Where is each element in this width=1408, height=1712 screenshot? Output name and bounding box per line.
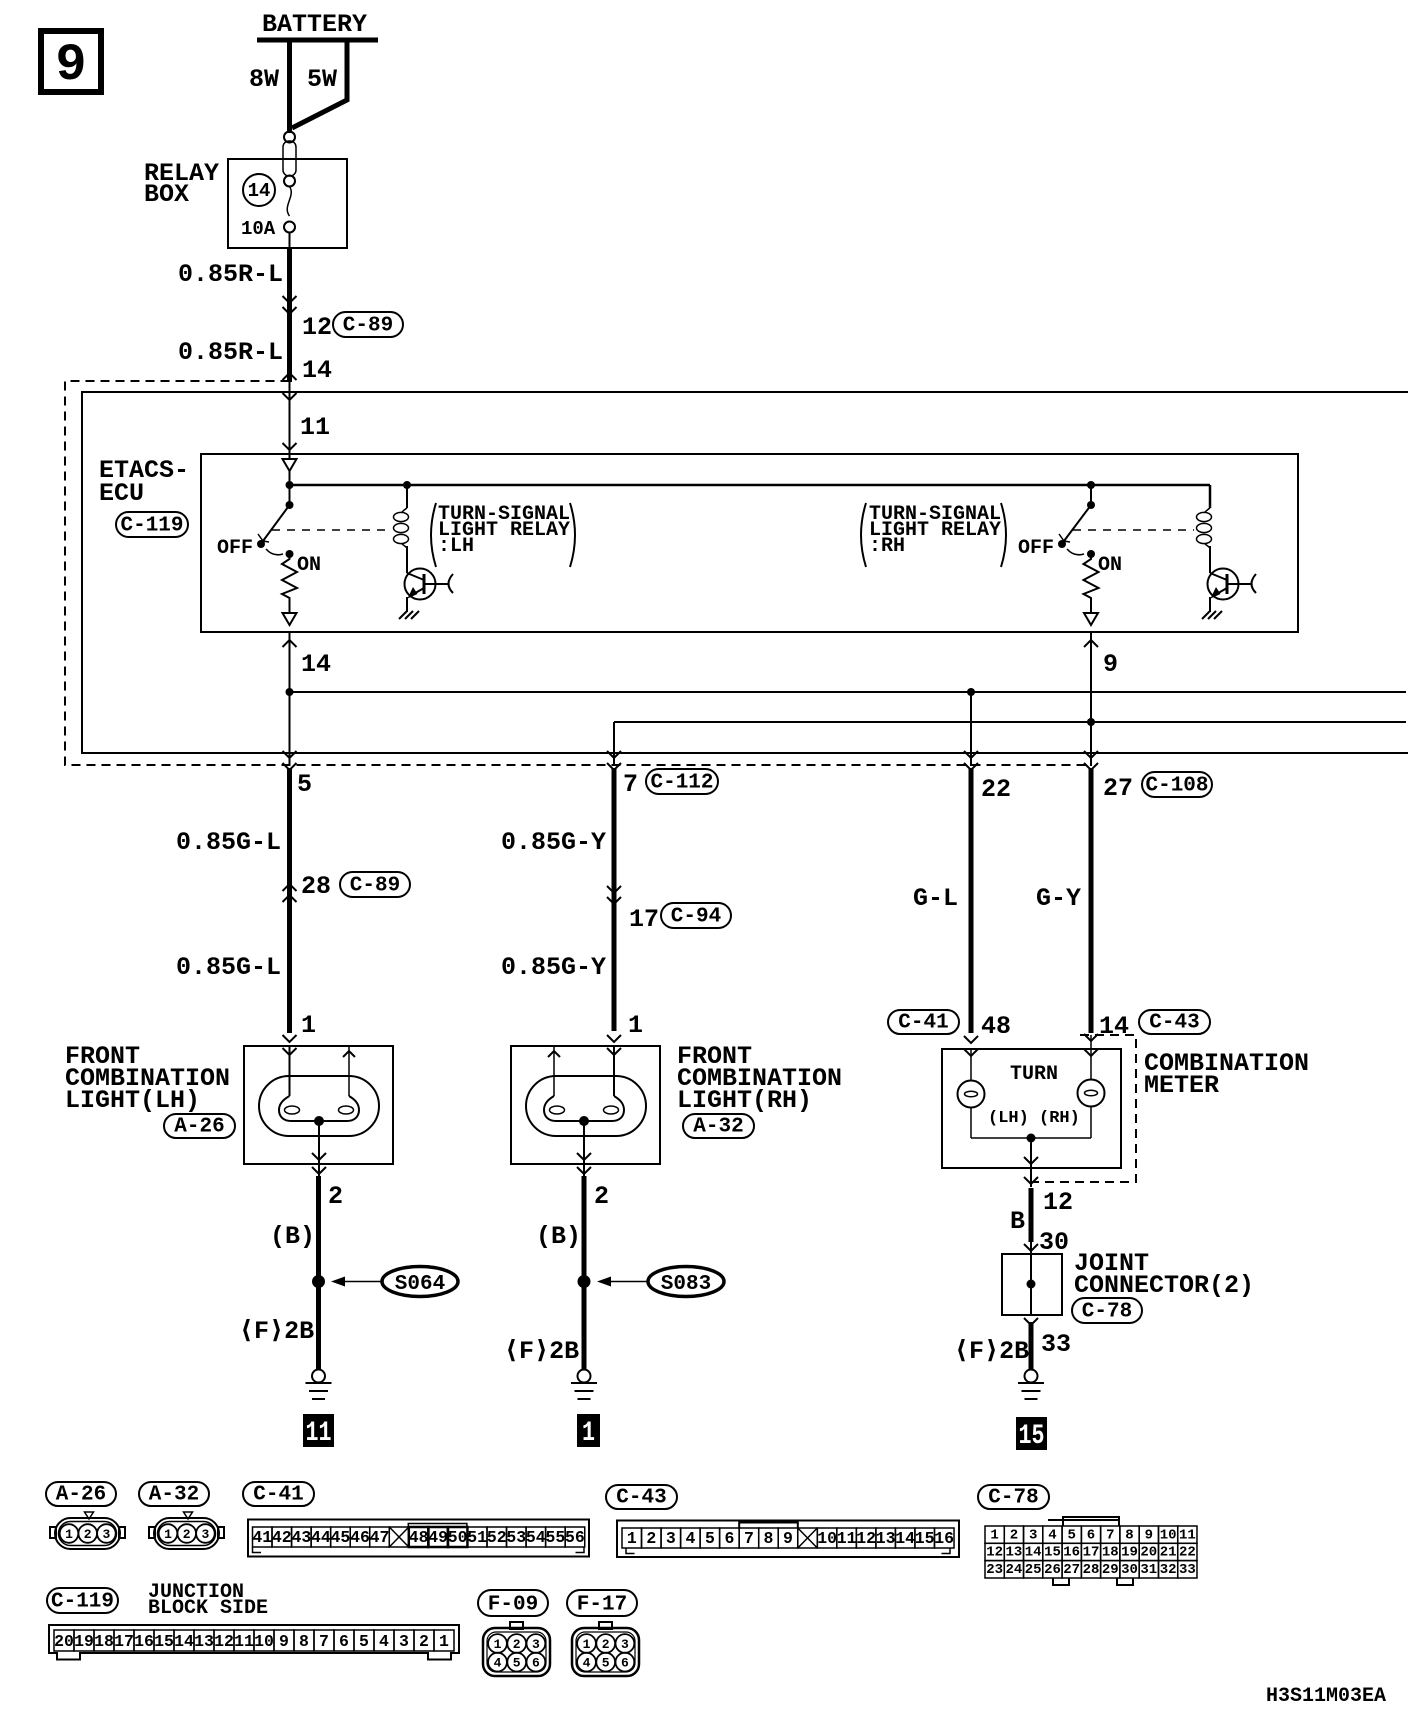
arrows into LH light connector <box>283 1035 297 1055</box>
svg-text:16: 16 <box>934 1529 954 1548</box>
svg-text:6: 6 <box>532 1656 540 1671</box>
arrow into joint connector <box>1030 1242 1032 1254</box>
wire to pin 7 with crossing arrows <box>607 722 621 770</box>
svg-text:9: 9 <box>783 1529 793 1548</box>
svg-text:14: 14 <box>1099 1012 1129 1041</box>
RH bulb feed wire pin1 <box>613 1046 615 1096</box>
svg-text:14: 14 <box>174 1632 194 1651</box>
svg-text:12: 12 <box>1043 1188 1073 1217</box>
svg-text:BLOCK SIDE: BLOCK SIDE <box>148 1597 268 1620</box>
LH ON contact <box>286 550 294 558</box>
relay box outline <box>228 159 347 248</box>
svg-text:25: 25 <box>1025 1562 1042 1578</box>
svg-text:50: 50 <box>448 1528 468 1547</box>
node: rail at LH relay coil <box>403 481 411 489</box>
svg-text:4: 4 <box>583 1656 591 1671</box>
svg-text:53: 53 <box>506 1528 526 1547</box>
connector capsule C-108 <box>1142 772 1212 798</box>
svg-text:17: 17 <box>1083 1545 1100 1561</box>
ground wire meter <box>1029 1322 1034 1370</box>
svg-text:2: 2 <box>183 1527 191 1542</box>
svg-text:28: 28 <box>1083 1562 1100 1578</box>
connector C-41 pinout <box>248 1520 589 1557</box>
RH bulb filaments <box>544 1096 624 1121</box>
svg-text:20: 20 <box>54 1632 74 1651</box>
internal supply rail wire <box>290 484 1211 487</box>
svg-text:3: 3 <box>621 1637 629 1652</box>
arrow out of joint connector <box>1024 1318 1038 1325</box>
svg-text:9: 9 <box>1103 650 1118 679</box>
svg-text:30: 30 <box>1121 1562 1138 1578</box>
RH relay coil <box>1197 485 1212 570</box>
joint connector node <box>1027 1280 1036 1289</box>
RH bulb outline <box>526 1076 646 1136</box>
svg-text:BOX: BOX <box>144 180 189 209</box>
arrow out of ETACS pin 9 <box>1084 640 1098 647</box>
svg-text:CONNECTOR(2): CONNECTOR(2) <box>1074 1271 1254 1300</box>
svg-text:9: 9 <box>1145 1527 1153 1543</box>
node LH branch <box>286 688 294 696</box>
svg-text:A-32: A-32 <box>693 1116 743 1139</box>
LH transistor ground <box>399 611 419 619</box>
svg-text:11: 11 <box>1179 1527 1196 1543</box>
fuse number circle 14 <box>243 174 275 206</box>
pass-through arrows at C-89 pin 28 <box>283 884 297 902</box>
arrow into ETACS-ECU <box>283 443 297 450</box>
wire ETACS pin9 down to node <box>1090 632 1092 722</box>
RH light output wire pin 2 <box>577 1121 591 1176</box>
svg-text:8: 8 <box>764 1529 774 1548</box>
fuse 14 (10A) in relay box <box>283 132 296 233</box>
wire G-L pin22 to meter <box>969 768 974 1033</box>
svg-text:C-89: C-89 <box>350 875 400 898</box>
svg-text:1: 1 <box>439 1632 449 1651</box>
ground wire (B) LH <box>316 1176 321 1370</box>
svg-text:31: 31 <box>1140 1562 1157 1578</box>
svg-text:1: 1 <box>627 1529 637 1548</box>
svg-text:1: 1 <box>65 1527 73 1542</box>
svg-text:44: 44 <box>311 1528 331 1547</box>
arrow into junction block <box>283 373 297 380</box>
resistor in LH switch leg <box>282 554 297 612</box>
svg-text:F-17: F-17 <box>577 1594 627 1617</box>
svg-text:8: 8 <box>1125 1527 1133 1543</box>
svg-text:LIGHT(LH): LIGHT(LH) <box>65 1086 200 1115</box>
svg-text:33: 33 <box>1041 1330 1071 1359</box>
svg-text:2: 2 <box>1010 1527 1018 1543</box>
battery positive bar <box>257 38 378 43</box>
svg-text:26: 26 <box>1044 1562 1061 1578</box>
svg-text:C-78: C-78 <box>1082 1301 1132 1324</box>
connector capsule C-43 <box>1139 1010 1210 1035</box>
arrow out of ETACS pin 14 <box>283 640 297 647</box>
svg-text:5: 5 <box>513 1656 521 1671</box>
connector pass-through arrows at C-89 <box>283 296 297 314</box>
svg-text:11: 11 <box>300 413 330 442</box>
svg-text:(B): (B) <box>270 1222 315 1251</box>
wire G-Y pin27 to meter <box>1089 768 1094 1033</box>
svg-text:G-Y: G-Y <box>1036 884 1081 913</box>
wire 0.85G-L pin5 to light <box>287 768 292 1033</box>
svg-text:14: 14 <box>301 650 331 679</box>
svg-text:12: 12 <box>856 1529 876 1548</box>
pass-through arrows at C-94 pin 17 <box>607 886 621 904</box>
svg-text:3: 3 <box>666 1529 676 1548</box>
ground symbol RH <box>571 1370 597 1400</box>
RH arm travel arc to ON <box>1067 549 1084 555</box>
svg-text:11: 11 <box>837 1529 857 1548</box>
connector capsule C-78 bottom <box>978 1485 1049 1510</box>
arrow from S064 tag <box>331 1277 382 1287</box>
LH OFF contact <box>257 540 265 548</box>
connector capsule A-32 <box>683 1114 754 1139</box>
node: rail at RH switch <box>1087 481 1095 489</box>
svg-text:4: 4 <box>1048 1527 1056 1543</box>
svg-text:9: 9 <box>279 1632 289 1651</box>
svg-text:12: 12 <box>302 313 332 342</box>
svg-text:27: 27 <box>1103 774 1133 803</box>
ETACS-ECU box <box>201 454 1298 632</box>
svg-text:2: 2 <box>602 1637 610 1652</box>
RH bulb second feed wire <box>548 1046 560 1096</box>
svg-text:30: 30 <box>1039 1228 1069 1257</box>
svg-text:C-41: C-41 <box>253 1484 303 1507</box>
svg-text:6: 6 <box>1087 1527 1095 1543</box>
svg-text:3: 3 <box>102 1527 110 1542</box>
connector capsule C-94 <box>661 903 731 929</box>
connector A-26 pinout <box>50 1512 125 1549</box>
RH transistor <box>1208 569 1257 613</box>
front combination light RH label <box>677 1042 842 1115</box>
svg-text:ECU: ECU <box>99 479 144 508</box>
svg-text:0.85R-L: 0.85R-L <box>178 338 283 367</box>
svg-text:51: 51 <box>467 1528 487 1547</box>
svg-text:24: 24 <box>1005 1562 1022 1578</box>
svg-text:7: 7 <box>319 1632 329 1651</box>
svg-text:5: 5 <box>297 770 312 799</box>
svg-text:2: 2 <box>594 1182 609 1211</box>
svg-text:23: 23 <box>986 1562 1003 1578</box>
svg-text:A-32: A-32 <box>149 1484 199 1507</box>
svg-text:1: 1 <box>301 1011 316 1040</box>
front combination light LH box <box>244 1046 393 1164</box>
connector C-78 pinout <box>985 1517 1197 1585</box>
svg-text:5W: 5W <box>307 65 337 94</box>
svg-text:28: 28 <box>301 872 331 901</box>
svg-text:⟨F⟩2B: ⟨F⟩2B <box>239 1317 314 1346</box>
connector capsule C-89 lower <box>340 872 410 898</box>
RH switch arm <box>1064 505 1091 541</box>
connector F-17 pinout <box>572 1622 639 1676</box>
svg-text:B: B <box>1010 1207 1025 1236</box>
svg-text:48: 48 <box>409 1528 429 1547</box>
connector capsule C-112 <box>646 769 718 795</box>
ETACS-ECU label <box>99 456 189 508</box>
LH bulb outline <box>259 1076 379 1136</box>
LH output triangle node pin 14 <box>283 613 297 625</box>
page ref box 15 <box>1016 1417 1047 1452</box>
svg-text:56: 56 <box>565 1528 585 1547</box>
horizontal bus wire LH signal <box>290 691 1407 693</box>
svg-text:5: 5 <box>602 1656 610 1671</box>
connector capsule C-89 <box>333 312 403 338</box>
dashed actuation link LH <box>272 529 391 531</box>
node branch to pin 22 <box>967 688 975 696</box>
svg-text:42: 42 <box>272 1528 292 1547</box>
RH OFF contact <box>1058 540 1066 548</box>
joint connector label <box>1074 1249 1254 1300</box>
svg-text:⟨F⟩2B: ⟨F⟩2B <box>954 1337 1029 1366</box>
svg-text:6: 6 <box>724 1529 734 1548</box>
svg-text:13: 13 <box>876 1529 896 1548</box>
junction block dashed outline <box>65 381 1090 765</box>
wire junction block top to ETACS-ECU <box>289 381 291 459</box>
input triangle node pin 11 <box>283 459 297 471</box>
svg-text:S083: S083 <box>661 1273 711 1296</box>
svg-text:C-43: C-43 <box>616 1487 666 1510</box>
splice node S083 <box>578 1275 591 1288</box>
svg-text:15: 15 <box>915 1529 935 1548</box>
LH light output wire pin 2 <box>312 1121 326 1176</box>
wire to pin 22 with crossing arrows <box>964 692 978 770</box>
LH relay coil <box>394 485 409 570</box>
svg-text:11: 11 <box>306 1418 332 1449</box>
TURN-SIGNAL LIGHT RELAY :LH label <box>431 503 575 567</box>
page ref box 11 <box>303 1414 334 1449</box>
svg-text:4: 4 <box>379 1632 389 1651</box>
svg-text:C-78: C-78 <box>988 1487 1038 1510</box>
LH arm travel arc to ON <box>266 549 283 555</box>
svg-text:33: 33 <box>1179 1562 1196 1578</box>
svg-text:22: 22 <box>1179 1545 1196 1561</box>
svg-text:⟨F⟩2B: ⟨F⟩2B <box>504 1337 579 1366</box>
connector capsule C-119 bottom <box>47 1588 118 1614</box>
svg-text:0.85G-L: 0.85G-L <box>176 953 281 982</box>
svg-text:21: 21 <box>1160 1545 1177 1561</box>
svg-text:C-108: C-108 <box>1145 775 1208 798</box>
connector F-09 pinout <box>483 1622 550 1676</box>
svg-text:32: 32 <box>1160 1562 1177 1578</box>
svg-text:C-41: C-41 <box>898 1012 948 1035</box>
svg-text:1: 1 <box>164 1527 172 1542</box>
svg-text:15: 15 <box>1044 1545 1061 1561</box>
connector capsule A-32 bottom <box>139 1482 209 1507</box>
resistor in RH switch leg <box>1084 554 1099 612</box>
node: rail at LH switch <box>286 481 294 489</box>
arrow from S083 tag <box>597 1277 648 1287</box>
svg-text:48: 48 <box>981 1012 1011 1041</box>
dashed actuation link RH <box>1073 529 1194 531</box>
RH transistor ground <box>1202 611 1222 619</box>
connector capsule C-41 <box>888 1010 959 1035</box>
svg-text:14: 14 <box>302 356 332 385</box>
LH switch common stub <box>289 485 291 505</box>
svg-text:2: 2 <box>646 1529 656 1548</box>
ground wire (B) RH <box>582 1176 587 1370</box>
svg-text:13: 13 <box>1005 1545 1022 1561</box>
svg-text:14: 14 <box>1025 1545 1042 1561</box>
svg-text:19: 19 <box>1121 1545 1138 1561</box>
svg-text:OFF: OFF <box>217 537 253 560</box>
LH bulb filaments <box>279 1096 359 1121</box>
svg-text:27: 27 <box>1063 1562 1080 1578</box>
svg-text:15: 15 <box>154 1632 174 1651</box>
svg-text:14: 14 <box>248 180 271 202</box>
svg-text:7: 7 <box>623 770 638 799</box>
svg-text:18: 18 <box>1102 1545 1119 1561</box>
svg-text:C-119: C-119 <box>51 1591 114 1614</box>
svg-text::LH: :LH <box>438 535 474 558</box>
LH bulb second feed wire <box>343 1046 355 1096</box>
LH switch arm <box>263 505 290 541</box>
connector capsule A-26 <box>164 1114 235 1139</box>
svg-text:(LH) (RH): (LH) (RH) <box>988 1109 1080 1128</box>
svg-text:METER: METER <box>1144 1071 1219 1100</box>
wire B meter to joint connector <box>1029 1188 1034 1242</box>
meter LH indicator bulb <box>958 1049 985 1138</box>
connector capsule C-43 bottom <box>606 1485 677 1510</box>
svg-text:6: 6 <box>621 1656 629 1671</box>
svg-text:10A: 10A <box>241 218 276 240</box>
svg-text:S064: S064 <box>395 1273 445 1296</box>
svg-text:5: 5 <box>705 1529 715 1548</box>
junction block side label <box>148 1581 268 1620</box>
svg-text:2: 2 <box>328 1182 343 1211</box>
svg-text:46: 46 <box>350 1528 370 1547</box>
joint connector box <box>1002 1254 1062 1315</box>
svg-text:10: 10 <box>817 1529 837 1548</box>
svg-text::RH: :RH <box>869 535 905 558</box>
splice tag S064 <box>382 1267 458 1297</box>
horizontal bus wire RH signal <box>614 721 1406 723</box>
connector A-32 pinout <box>149 1512 224 1549</box>
svg-text:7: 7 <box>1106 1527 1114 1543</box>
svg-text:0.85R-L: 0.85R-L <box>178 260 283 289</box>
wire to pin 5 with crossing arrows <box>283 692 297 770</box>
svg-text:3: 3 <box>201 1527 209 1542</box>
svg-text:19: 19 <box>74 1632 94 1651</box>
svg-text:BATTERY: BATTERY <box>262 10 367 39</box>
svg-text:41: 41 <box>252 1528 272 1547</box>
svg-text:16: 16 <box>1063 1545 1080 1561</box>
svg-text:43: 43 <box>291 1528 311 1547</box>
svg-text:3: 3 <box>399 1632 409 1651</box>
wire to pin 27 with crossing arrows <box>1084 722 1098 770</box>
splice node S064 <box>312 1275 325 1288</box>
svg-text:8W: 8W <box>249 65 279 94</box>
splice tag S083 <box>648 1267 724 1297</box>
svg-text:12: 12 <box>214 1632 234 1651</box>
RH output triangle node pin 9 <box>1084 613 1098 625</box>
svg-text:8: 8 <box>299 1632 309 1651</box>
svg-text:47: 47 <box>370 1528 390 1547</box>
svg-text:2: 2 <box>513 1637 521 1652</box>
svg-text:0.85G-Y: 0.85G-Y <box>501 828 606 857</box>
svg-text:17: 17 <box>114 1632 134 1651</box>
LH bulb feed wire pin1 <box>289 1046 291 1096</box>
relay box label <box>144 159 219 209</box>
connector C-43 pinout <box>617 1521 959 1558</box>
svg-text:55: 55 <box>545 1528 565 1547</box>
connector C-119 pinout <box>49 1625 459 1660</box>
svg-text:ON: ON <box>1098 554 1122 577</box>
svg-text:1: 1 <box>990 1527 998 1543</box>
combination meter box <box>942 1049 1121 1168</box>
svg-text:C-43: C-43 <box>1149 1012 1199 1035</box>
svg-text:16: 16 <box>134 1632 154 1651</box>
svg-text:4: 4 <box>494 1656 502 1671</box>
svg-text:15: 15 <box>1019 1421 1045 1452</box>
svg-text:C-94: C-94 <box>671 906 721 929</box>
arrow below inner box line <box>283 393 297 400</box>
svg-text:45: 45 <box>330 1528 350 1547</box>
svg-text:A-26: A-26 <box>174 1116 224 1139</box>
svg-text:7: 7 <box>744 1529 754 1548</box>
svg-text:C-119: C-119 <box>120 515 183 538</box>
svg-text:1: 1 <box>582 1418 595 1449</box>
svg-text:A-26: A-26 <box>56 1484 106 1507</box>
meter bulb common wire <box>971 1137 1091 1139</box>
svg-text:14: 14 <box>895 1529 915 1548</box>
svg-text:10: 10 <box>1160 1527 1177 1543</box>
svg-text:G-L: G-L <box>913 884 958 913</box>
svg-text:C-112: C-112 <box>650 772 713 795</box>
svg-text:20: 20 <box>1140 1545 1157 1561</box>
connector capsule C-78 <box>1072 1298 1142 1324</box>
connector capsule F-09 bottom <box>478 1590 548 1617</box>
svg-text:18: 18 <box>94 1632 114 1651</box>
connector capsule C-119 <box>116 512 188 538</box>
arrows into meter pin 14 <box>1084 1034 1098 1056</box>
svg-text:1: 1 <box>494 1637 502 1652</box>
svg-text:29: 29 <box>1102 1562 1119 1578</box>
RH switch common stub <box>1090 485 1092 505</box>
meter common node <box>1027 1134 1036 1143</box>
node branch to pin 27 <box>1087 718 1095 726</box>
svg-text:1: 1 <box>628 1011 643 1040</box>
svg-text:10: 10 <box>254 1632 274 1651</box>
junction block inner solid outline <box>82 392 1408 753</box>
meter output wire pin 12 <box>1024 1138 1038 1187</box>
front combination light LH label <box>65 1042 230 1115</box>
combination meter label <box>1144 1049 1309 1100</box>
svg-text:0.85G-Y: 0.85G-Y <box>501 953 606 982</box>
svg-text:5: 5 <box>1067 1527 1075 1543</box>
TURN-SIGNAL LIGHT RELAY :RH label <box>861 503 1006 567</box>
svg-text:1: 1 <box>583 1637 591 1652</box>
svg-text:F-09: F-09 <box>488 1594 538 1617</box>
svg-text:H3S11M03EA: H3S11M03EA <box>1266 1685 1386 1708</box>
svg-text:49: 49 <box>428 1528 448 1547</box>
ground symbol LH <box>306 1370 332 1400</box>
wire fuse to C-89 junction block <box>289 232 291 250</box>
svg-text:54: 54 <box>526 1528 546 1547</box>
RH bulb common node <box>579 1116 589 1126</box>
svg-text:5: 5 <box>359 1632 369 1651</box>
wire ETACS pin14 down to node <box>289 632 291 692</box>
svg-text:LIGHT(RH): LIGHT(RH) <box>677 1086 812 1115</box>
svg-text:TURN: TURN <box>1010 1063 1058 1086</box>
svg-text:13: 13 <box>194 1632 214 1651</box>
svg-text:(B): (B) <box>536 1222 581 1251</box>
svg-text:C-89: C-89 <box>343 315 393 338</box>
svg-text:6: 6 <box>339 1632 349 1651</box>
svg-text:17: 17 <box>629 905 659 934</box>
wire 0.85G-Y pin7 to light <box>612 768 617 1031</box>
page ref box 1 <box>577 1414 600 1449</box>
svg-text:4: 4 <box>685 1529 695 1548</box>
svg-text:9: 9 <box>55 36 86 95</box>
